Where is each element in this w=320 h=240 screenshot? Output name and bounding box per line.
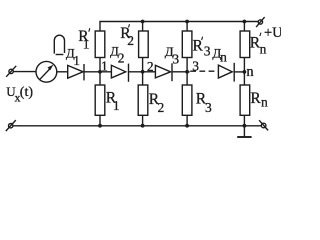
diode D1	[68, 65, 83, 78]
wire node1 to R1	[99, 72, 101, 85]
top rail junction coln	[243, 20, 247, 24]
svg-text:1: 1	[83, 36, 90, 51]
node 1 junction	[98, 70, 102, 74]
node n junction	[243, 70, 247, 74]
svg-text:n: n	[220, 49, 227, 64]
diode D2	[111, 65, 125, 78]
resistor R2	[138, 85, 148, 115]
svg-text:1: 1	[73, 53, 80, 68]
node 2 junction	[141, 70, 145, 74]
svg-text:n: n	[261, 94, 268, 109]
wire D1 to D2	[84, 71, 111, 73]
svg-text:3: 3	[204, 43, 211, 58]
wire R'2 to node2	[142, 58, 144, 72]
resistor R'n	[240, 31, 250, 58]
svg-text:n: n	[260, 41, 267, 56]
ground	[243, 126, 245, 137]
resistor R1	[95, 85, 105, 115]
svg-text:+U: +U	[264, 25, 281, 41]
top rail junction col3	[185, 20, 189, 24]
svg-text:n: n	[246, 64, 254, 80]
wire R1 to bottom rail	[99, 115, 101, 125]
svg-text:1: 1	[113, 98, 120, 113]
wire Dn to node n	[234, 71, 244, 73]
svg-text:2: 2	[118, 51, 125, 66]
terminal output bottom-right	[261, 123, 266, 128]
diode D3	[155, 65, 170, 78]
resistor R'2	[139, 31, 149, 58]
bottom rail junction col2	[141, 124, 145, 128]
wire node n to Rn	[243, 72, 245, 85]
node 3 junction	[185, 70, 189, 74]
bottom rail junction col1	[98, 124, 102, 128]
wire R'n to node n	[243, 58, 245, 72]
svg-text:2: 2	[127, 33, 134, 48]
wire R2 to bottom rail	[142, 115, 144, 125]
wire terminal to meter	[13, 71, 36, 73]
wire top rail to R'n	[243, 22, 245, 32]
wire meter to diode D1	[57, 71, 68, 73]
terminal +U top-right	[258, 20, 262, 24]
svg-text:3: 3	[205, 100, 212, 115]
meter P1	[36, 61, 57, 82]
wire R3 to bottom rail	[186, 115, 188, 125]
bottom rail junction coln	[243, 124, 247, 128]
wire top rail to R'3	[186, 22, 188, 32]
resistor R'1	[95, 31, 105, 58]
svg-text:R: R	[250, 90, 261, 107]
wire node2 to R2	[142, 72, 144, 85]
svg-text:1: 1	[101, 58, 108, 73]
resistor Rn	[240, 85, 250, 115]
svg-text:2: 2	[147, 59, 154, 74]
svg-text:3: 3	[172, 51, 179, 66]
lamp/envelope symbol above D1	[54, 35, 64, 53]
resistor R3	[182, 85, 192, 115]
wire node3 to R3	[186, 72, 188, 85]
top rail	[100, 22, 258, 32]
wire D3 to node 3	[172, 71, 190, 73]
wire R'3 to node3	[186, 58, 188, 72]
bottom rail junction col3	[185, 124, 189, 128]
terminal input bottom-left	[9, 124, 13, 128]
wire R'1 to node1	[99, 58, 101, 72]
terminal input top-left	[9, 69, 13, 73]
wire top rail to R'2	[142, 22, 144, 32]
top rail junction col2	[141, 20, 145, 24]
diode Dn	[218, 65, 232, 78]
dashed wire node3 to Dn	[190, 70, 218, 72]
bottom rail	[13, 125, 261, 127]
wire D2 to D3	[129, 71, 156, 73]
svg-text:(t): (t)	[20, 85, 34, 100]
svg-text:2: 2	[158, 100, 165, 115]
resistor R'3	[182, 31, 192, 58]
wire Rn to bottom rail	[243, 115, 245, 125]
